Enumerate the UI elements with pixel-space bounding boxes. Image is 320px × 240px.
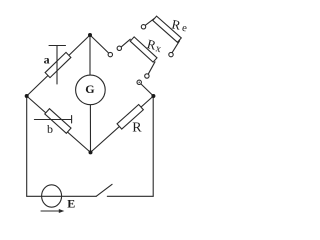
wire right rail [152,96,154,196]
resistor R body [117,105,143,130]
resistor a body [45,52,71,77]
svg-text:R: R [132,120,142,135]
wire left rail [26,96,28,196]
lead c5 to Re body [145,18,154,25]
slider (jockey) on a [56,46,58,85]
label Rx [145,36,164,55]
junction dot top vertex [88,33,92,37]
resistor Rx body [130,37,157,62]
junction dot left vertex [25,94,29,98]
resistor Re body [153,16,182,42]
jack c2 (to Rx) [117,46,121,50]
current arrow under E [41,210,61,212]
switch blade [96,184,112,196]
svg-text:x: x [154,43,162,55]
jack c3 [145,74,149,78]
jack c1 (from top vertex) [108,52,112,56]
jack c6 [169,52,173,56]
jack c5 (to Re) [141,25,145,29]
svg-text:E: E [67,196,75,210]
jack c4 (plugged, to right vertex) [137,80,141,84]
wire bottom left segment [27,195,97,197]
lead c2 to Rx body [121,39,130,47]
wire arm a (left vertex to top vertex) [27,35,90,96]
wire bottom right segment [107,195,153,197]
lead Re body to jack c6 [172,41,180,53]
svg-text:e: e [181,23,188,35]
svg-text:b: b [47,122,53,136]
resistor b body [45,109,71,134]
wire top vertex to jack c1 [90,35,109,53]
lead Rx body to jack c3 [148,62,155,74]
svg-text:G: G [85,82,94,96]
slider (jockey) on b [34,119,71,121]
galvanometer G circle [76,75,106,105]
svg-text:R: R [170,16,182,33]
svg-text:a: a [44,53,50,67]
wire arm R (bottom vertex to right vertex) [91,96,154,152]
junction dot bottom vertex [89,150,93,154]
wire jack c4 to right vertex [141,84,154,96]
wire galvanometer top [89,35,91,75]
wire arm b (left vertex to bottom vertex) [27,96,91,152]
source E circle [42,185,62,207]
wire galvanometer bottom [89,105,91,153]
label Re [170,16,189,34]
junction dot right vertex [151,94,155,98]
